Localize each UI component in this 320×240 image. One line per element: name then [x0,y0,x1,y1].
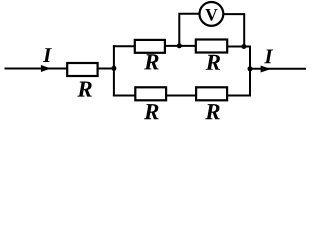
wire: right lead out [250,68,306,70]
label I (right) [264,50,273,64]
node: voltmeter right junction [241,44,246,49]
wire: R5 to right rail [227,95,251,97]
label R5 [205,104,220,119]
node: left junction [111,66,116,71]
label R3 [206,55,220,70]
wire: voltmeter left lead (up and over) [179,14,200,46]
label V (voltmeter) [205,9,217,21]
node: voltmeter left junction [177,43,182,48]
label R1 [77,82,92,97]
wire: R2 to voltmeter-left node [165,45,196,47]
current arrow I (right) [261,66,271,73]
label R2 [144,54,158,69]
resistor R1 (series) [67,63,97,76]
wire: top branch left stub [113,45,135,47]
node: right exit junction [248,66,253,71]
resistor R2 (top-left) [135,40,165,53]
wire: R1 to left node [98,68,114,70]
wire: voltmeter right lead (over and down) [223,14,244,46]
resistor R5 (bottom-right) [196,87,227,100]
wire: R4 to R5 [166,95,196,97]
label R4 [144,104,158,119]
current arrow I (left) [41,65,51,72]
wire: right rail (vertical) [249,46,251,97]
wire: left rail (vertical) [113,45,115,96]
label I (left) [43,48,52,62]
voltmeter V (circle) [200,2,224,26]
wire: left lead in [5,68,68,70]
wire: R3 to right rail [227,46,250,48]
resistor R4 (bottom-left) [135,87,166,100]
wire: bottom branch left stub [113,95,136,97]
resistor R3 (top-right) [196,40,227,53]
